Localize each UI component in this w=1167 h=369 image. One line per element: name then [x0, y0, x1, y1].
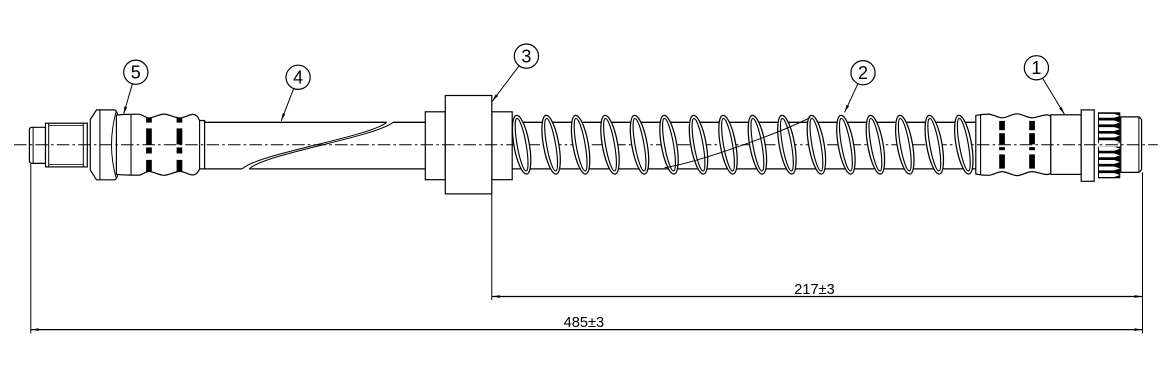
spring coil at x=875.4: [863, 114, 889, 175]
right fitting splined section: [1098, 112, 1121, 178]
thread relief line left: [48, 123, 50, 167]
thread minor diameter line bottom: [49, 164, 84, 166]
spring coil at x=669.0: [656, 114, 682, 175]
svg-text:217±3: 217±3: [794, 282, 834, 298]
spring coil at x=757.4: [745, 114, 771, 175]
arrow 217 right: [1135, 295, 1143, 298]
left threaded section: [46, 123, 88, 167]
svg-text:5: 5: [131, 63, 141, 83]
balloon circle 1: [1024, 56, 1048, 80]
spring break curve: [665, 118, 811, 168]
spring coil at x=639.5: [627, 114, 653, 175]
spring coil at x=816.4: [804, 114, 830, 175]
right fitting flange: [1081, 110, 1094, 181]
bracket right collar: [492, 112, 512, 180]
dimension extension line left: [30, 164, 32, 334]
arrow 485 left: [31, 328, 39, 331]
arrowhead balloon 4: [281, 113, 285, 121]
hose break curve 1: [242, 122, 387, 169]
spring coil at x=904.8: [892, 114, 918, 175]
svg-text:2: 2: [858, 63, 868, 83]
bracket left collar: [425, 112, 445, 180]
hose bottom outline line: [205, 168, 976, 170]
spring coil at x=521.6: [509, 114, 535, 175]
leader line balloon 3: [492, 66, 519, 101]
dimension extension line middle: [491, 194, 493, 300]
thread minor diameter line top: [49, 125, 84, 127]
right fitting cylinder: [1051, 115, 1081, 175]
svg-text:485±3: 485±3: [564, 315, 604, 331]
spring coil at x=698.5: [686, 114, 712, 175]
spring coil at x=845.9: [833, 114, 859, 175]
left fitting tip: [29, 127, 45, 163]
thread relief line right: [82, 123, 84, 167]
left ferrule cap line: [130, 114, 132, 175]
left tip chamfer line: [32, 128, 34, 164]
arrow 485 right: [1135, 328, 1143, 331]
spring coil at x=728.0: [715, 114, 741, 175]
right fitting end cylinder: [1121, 117, 1142, 172]
left ferrule body: [116, 114, 204, 175]
left ferrule end cap edge: [199, 121, 201, 169]
dimension line 485: [31, 329, 1143, 331]
hose break curve 2: [249, 122, 393, 169]
leader line balloon 5: [124, 84, 133, 114]
arrowhead balloon 5: [124, 107, 128, 115]
dimension extension line right: [1142, 173, 1144, 334]
bracket center block: [445, 96, 492, 194]
hex nut face line: [99, 110, 101, 180]
svg-text:1: 1: [1031, 58, 1041, 78]
balloon circle 3: [514, 44, 538, 68]
spring coil at x=786.9: [774, 114, 800, 175]
arrowhead balloon 3: [492, 94, 498, 101]
right ferrule crimp band 2: [1029, 121, 1035, 169]
right ferrule body: [976, 114, 1051, 176]
arrowhead balloon 1: [1059, 107, 1064, 114]
end cylinder chamfer line: [1138, 117, 1140, 172]
right ferrule crimp band 1: [999, 121, 1005, 169]
balloon circle 4: [286, 65, 310, 89]
leader line balloon 4: [281, 89, 294, 121]
centerline: [14, 144, 1158, 146]
spring coil at x=610.0: [597, 114, 623, 175]
spring coil at x=963.8: [951, 114, 977, 175]
spring coil at x=580.6: [568, 114, 594, 175]
left ferrule crimp band 1: [146, 118, 152, 171]
left ferrule crimp band 2: [177, 118, 183, 171]
svg-text:4: 4: [293, 68, 303, 88]
balloon circle 2: [851, 61, 875, 85]
balloon circle 5: [124, 60, 148, 84]
hex nut body: [90, 110, 118, 180]
dimension line 217: [492, 296, 1143, 298]
right ferrule cap line: [980, 115, 982, 175]
spring coil at x=551.1: [538, 114, 564, 175]
arrowhead balloon 2: [845, 105, 850, 113]
leader line balloon 1: [1043, 78, 1065, 114]
arrow 217 left: [492, 295, 500, 298]
svg-text:3: 3: [521, 46, 531, 66]
hex nut chamfer arc: [112, 112, 117, 179]
leader line balloon 2: [845, 84, 858, 113]
spring coil at x=934.3: [922, 114, 948, 175]
hose top outline line: [205, 121, 976, 123]
